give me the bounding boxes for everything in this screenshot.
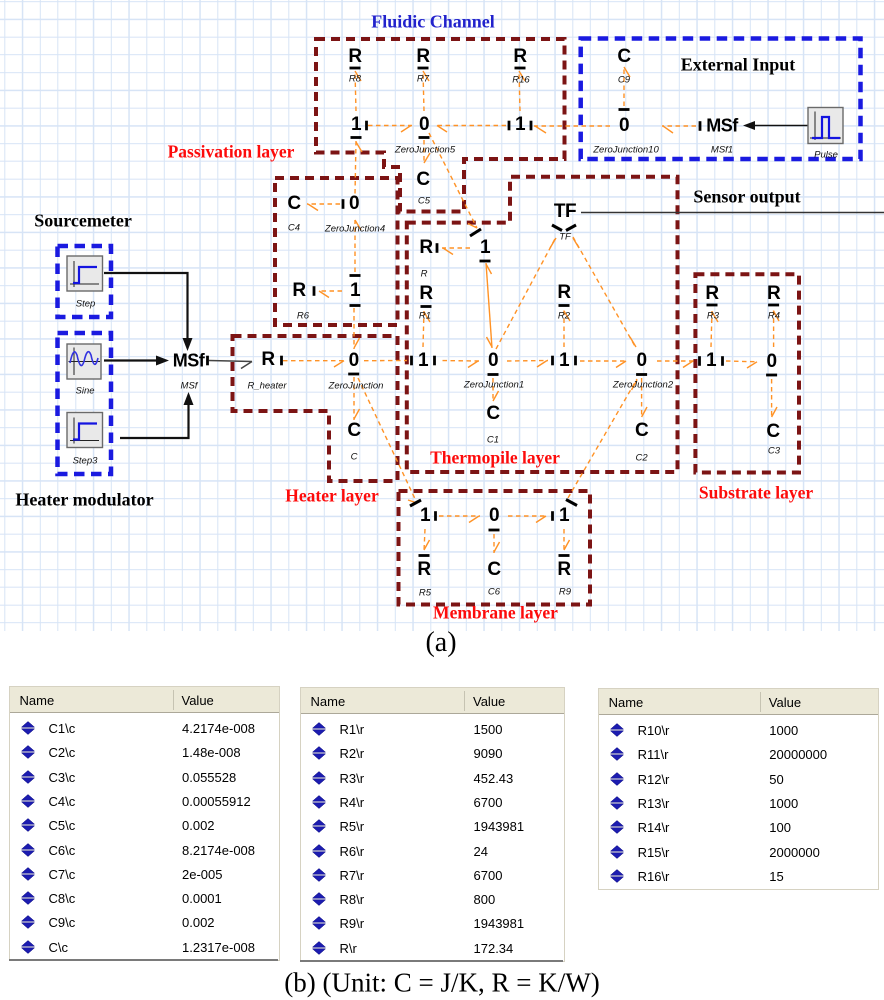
- 0-junction (membrane): [489, 505, 499, 527]
- bond substrate 1-junction to R3: [711, 311, 718, 347]
- resistor R_heater: [261, 349, 274, 371]
- bond 1-junction to R2: [564, 310, 570, 347]
- wire Step3 to MSf: [120, 403, 189, 438]
- region box: Sourcemeter (Step): [58, 246, 112, 317]
- bond 0-junction4 to C4: [307, 204, 340, 211]
- bond 1-junction to R6: [318, 291, 342, 298]
- bond ZeroJunction to membrane 1-junction (diagonal): [358, 378, 417, 503]
- bond 1-junction to R8: [355, 71, 361, 111]
- bond passivation 1-junction to ZeroJunction: [354, 308, 360, 349]
- bond 1-junction to R1: [423, 311, 430, 347]
- region box: Membrane layer: [399, 491, 591, 605]
- label R_heater: [247, 381, 286, 392]
- resistor R8: [348, 46, 361, 68]
- resistor R4: [767, 283, 780, 305]
- region box: External Input: [581, 39, 861, 160]
- label R16: [512, 75, 529, 86]
- label R3: [707, 310, 719, 321]
- Step3 block: [67, 413, 103, 448]
- grid background: [0, 0, 884, 631]
- bond 1-junction to 0-junction4: [355, 220, 361, 272]
- label Step: [76, 298, 96, 309]
- bond membrane 1-junction to R5: [424, 529, 430, 551]
- 0-junction (substrate): [767, 351, 777, 373]
- region box: Passivation layer: [275, 178, 398, 325]
- title Sensor output: [693, 187, 800, 208]
- resistor R16: [513, 46, 526, 68]
- bond ZeroJunction2 to substrate 1-junction: [657, 361, 694, 368]
- 1-junction (membrane right): [559, 505, 569, 527]
- transformer TF: [554, 201, 576, 223]
- bond 0-junction5 to C5: [424, 140, 430, 163]
- wire Step to MSf: [104, 273, 188, 340]
- bond 1-junction to R16: [519, 71, 525, 111]
- 1-junction (thermopile top): [480, 237, 490, 259]
- port bars (vertical): [208, 121, 723, 521]
- table R1-R parameters: [300, 687, 566, 962]
- region box: Thermopile layer: [407, 177, 678, 472]
- bond R_heater to ZeroJunction: [283, 361, 344, 367]
- bond 0-junction5 to 1-junction (diagonal): [429, 133, 477, 228]
- label Sine: [75, 386, 94, 397]
- label MSf1: [711, 145, 733, 156]
- wire Sine to MSf: [104, 359, 158, 361]
- bond ZeroJunction1 to 1-junction: [507, 361, 548, 368]
- bond thermopile 1-junction to ZeroJunction1 (solid): [486, 263, 492, 348]
- label ZeroJunction5: [395, 145, 455, 156]
- resistor R5: [417, 559, 430, 581]
- capacitor C2: [635, 420, 648, 442]
- bond membrane 1-junction to R9: [564, 529, 570, 551]
- capacitor C6: [487, 559, 500, 581]
- caption (a): [425, 627, 456, 659]
- resistor R1: [419, 283, 432, 305]
- 1-junction (fluidic left): [351, 114, 361, 136]
- wire Pulse to MSf1: [754, 125, 808, 127]
- 0-junction ZeroJunction2: [637, 350, 647, 372]
- label C2: [636, 452, 648, 463]
- caption (b) units: [284, 968, 599, 999]
- capacitor C5: [416, 169, 429, 191]
- title External Input: [681, 54, 796, 75]
- label Pulse: [814, 150, 838, 161]
- resistor R3: [705, 283, 718, 305]
- label C1: [487, 435, 499, 446]
- diagonal port marks (1-junctions, TF): [410, 225, 577, 506]
- bond substrate 0-junction to C3: [772, 379, 777, 418]
- 0-junction ZeroJunction1: [488, 350, 498, 372]
- bond ZeroJunction1 to C1: [493, 378, 499, 402]
- label C3: [768, 446, 780, 457]
- title Heater modulator: [15, 490, 153, 511]
- title Heater layer: [285, 486, 378, 507]
- table R10-R16 parameters: [598, 688, 879, 890]
- title Passivation layer: [168, 142, 295, 163]
- port bars (horizontal): [348, 68, 779, 556]
- capacitor C4: [287, 193, 300, 215]
- capacitor C3: [766, 421, 779, 443]
- source MSf: [173, 350, 205, 371]
- label C (heater): [351, 452, 358, 463]
- title Sourcemeter: [34, 211, 132, 232]
- 1-junction (passivation): [350, 280, 360, 302]
- bond 1-junction to 0-junction5 (right): [436, 126, 506, 133]
- capacitor C9: [617, 46, 630, 68]
- capacitor C (heater): [347, 420, 360, 442]
- bond MSf1 to 0-junction10: [662, 126, 696, 133]
- Step block: [67, 256, 103, 291]
- capacitor C1: [486, 403, 499, 425]
- region box: Heater layer: [233, 336, 398, 481]
- label Step3: [73, 456, 98, 467]
- bond membrane 0-junction to 1-junction: [508, 516, 547, 523]
- wire MSf to R_heater: [209, 361, 252, 369]
- 0-junction ZeroJunction4: [349, 193, 359, 215]
- title Substrate layer: [699, 482, 813, 503]
- bond 1-junction to ZeroJunction1: [439, 361, 479, 368]
- wire TF sensor output line: [581, 212, 884, 214]
- bond 0-junction10 to 1-junction: [534, 126, 610, 133]
- label ZeroJunction2: [613, 380, 673, 391]
- region box: Fluidic Channel: [316, 39, 565, 212]
- Sine block: [67, 344, 101, 379]
- label R1: [419, 310, 431, 321]
- 0-junction ZeroJunction: [349, 350, 359, 372]
- label MSf (label): [181, 381, 198, 392]
- title Thermopile layer: [430, 447, 560, 468]
- label C6: [488, 587, 500, 598]
- bond substrate 1-junction to 0-junction: [726, 361, 758, 368]
- title Membrane layer: [433, 603, 558, 624]
- label C4: [288, 223, 300, 234]
- bond ZeroJunction to C: [354, 377, 360, 420]
- label R9: [559, 587, 571, 598]
- bond ZeroJunction2 to C2: [642, 378, 647, 418]
- resistor R6: [292, 280, 305, 302]
- 0-junction ZeroJunction10: [619, 115, 629, 137]
- label ZeroJunction1: [464, 380, 524, 391]
- bond ZeroJunction1 to TF (diagonal): [496, 237, 556, 349]
- label R8: [349, 74, 361, 85]
- bond 0-junction5 to R7: [423, 71, 429, 111]
- label R5: [419, 588, 431, 599]
- resistor R7: [416, 46, 429, 68]
- label R6: [297, 311, 309, 322]
- 0-junction ZeroJunction5: [419, 114, 429, 136]
- title Fluidic Channel: [371, 12, 495, 33]
- bond 1-junction to ZeroJunction2: [580, 361, 627, 368]
- bond TF to ZeroJunction2 (diagonal): [573, 237, 636, 348]
- 1-junction (fluidic right): [515, 114, 525, 136]
- 1-junction (membrane left): [420, 505, 430, 527]
- bond membrane 1-junction to ZeroJunction2 (diagonal): [568, 379, 637, 498]
- Pulse block: [808, 108, 843, 144]
- bond membrane 0-junction to C6: [494, 534, 500, 553]
- bond membrane 1-junction to 0-junction: [439, 516, 480, 523]
- label ZeroJunction10: [593, 145, 658, 156]
- bond ZeroJunction to 1-junction: [364, 360, 407, 362]
- label TF: [559, 231, 571, 242]
- label R4: [768, 310, 780, 321]
- region box: Heater modulator (Sine+Step3): [58, 333, 112, 474]
- table C parameters: [9, 686, 281, 961]
- source MSf1: [706, 116, 738, 137]
- bond 1-junction to 0-junction5: [368, 126, 412, 133]
- resistor R (thermopile): [419, 237, 432, 259]
- label R (thermopile): [421, 269, 428, 280]
- resistor R9: [557, 559, 570, 581]
- 1-junction (substrate): [706, 350, 716, 372]
- bond substrate 0-junction to R4: [774, 310, 779, 347]
- bond TF to ZeroJunction2 lower barb: [630, 337, 636, 347]
- 1-junction (thermopile left): [418, 350, 428, 372]
- bond fluidic 1-junction to 0-junction4: [355, 141, 362, 194]
- label ZeroJunction4: [325, 224, 385, 235]
- 1-junction (thermopile mid): [559, 350, 569, 372]
- label R2: [558, 311, 570, 322]
- label R7: [417, 74, 429, 85]
- resistor R2: [557, 282, 570, 304]
- label C9: [618, 75, 630, 86]
- bond 0-junction10 to C9: [624, 67, 630, 106]
- label C5: [418, 196, 430, 207]
- region box: Substrate layer: [695, 274, 799, 472]
- label ZeroJunction: [329, 381, 384, 392]
- bond thermopile 1-junction to R: [442, 248, 470, 255]
